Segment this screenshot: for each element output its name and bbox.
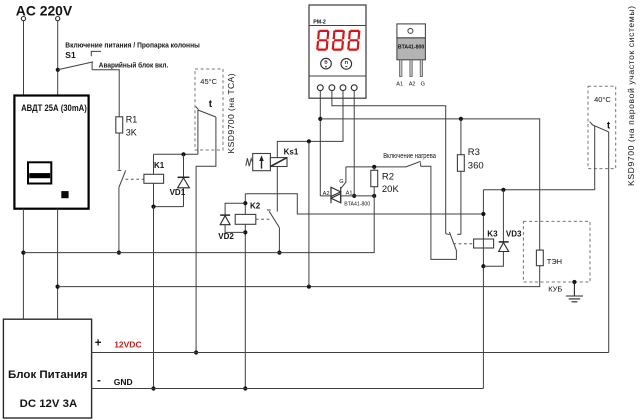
junction S1 pivot bbox=[56, 68, 60, 72]
relay coil K3 bbox=[474, 239, 494, 248]
svg-text:3K: 3K bbox=[126, 128, 137, 138]
svg-text:45°C: 45°C bbox=[200, 77, 217, 86]
svg-text:KSD9700 (на паровой участок си: KSD9700 (на паровой участок системы) bbox=[626, 6, 636, 186]
svg-text:t: t bbox=[209, 99, 213, 110]
contact K2.1 tick bbox=[267, 209, 271, 211]
wire PM2-4 down bbox=[353, 91, 355, 196]
node rail K1/VD1 bottom bbox=[154, 206, 184, 208]
terminal PM2-1 bbox=[317, 85, 323, 91]
triac U1 symbol bbox=[331, 187, 341, 203]
wire R3 bottom to K3 changeover bbox=[460, 171, 462, 234]
wire 45C left lead to K1 rail bbox=[197, 110, 199, 154]
terminal L (AC phase) bbox=[21, 17, 25, 21]
svg-text:АВДТ 25А (30mA): АВДТ 25А (30mA) bbox=[21, 103, 87, 113]
diode VD1 bbox=[183, 154, 185, 177]
node rail K1/VD1 top bbox=[154, 153, 198, 155]
svg-text:K2: K2 bbox=[250, 201, 261, 210]
display 888 bbox=[316, 30, 360, 51]
wire R1 to K1 contact bbox=[118, 133, 120, 170]
breaker АВДТ 25А (30мА) box bbox=[14, 96, 88, 209]
wire rail PM2-1 to R3 and TEH bbox=[320, 119, 539, 250]
junction VD3 top bbox=[501, 188, 505, 192]
junction rail B / PM2-3 branch bbox=[307, 285, 311, 289]
svg-text:K3: K3 bbox=[487, 230, 498, 239]
junction cube ground bbox=[572, 280, 576, 284]
wire breaker-N out to PSU bbox=[57, 209, 59, 320]
wire K2 branch rail bbox=[245, 194, 483, 214]
svg-text:Аварийный блок вкл.: Аварийный блок вкл. bbox=[99, 62, 169, 70]
svg-text:Включение питания / Пропарка к: Включение питания / Пропарка колонны bbox=[65, 43, 200, 50]
svg-text:П: П bbox=[345, 60, 348, 65]
contact K3.1 right tick bbox=[457, 233, 461, 235]
thermal switch 45C blade bbox=[198, 110, 216, 117]
valve Ks1 body bbox=[253, 154, 271, 171]
triac U1 A1 lead bbox=[341, 195, 375, 197]
svg-text:VD1: VD1 bbox=[170, 188, 186, 197]
junction VD2 top bbox=[243, 201, 247, 205]
junction VD2 bottom bbox=[243, 230, 247, 234]
contact K2.1 blade bbox=[269, 211, 279, 227]
triac BTA41-800 package bbox=[397, 24, 426, 38]
svg-text:Блок Питания: Блок Питания bbox=[8, 369, 88, 381]
heater ТЭН dashed box bbox=[523, 221, 590, 282]
svg-text:РМ-2: РМ-2 bbox=[313, 19, 326, 25]
junction PM2-1 / rail bbox=[318, 117, 322, 121]
svg-text:VD3: VD3 bbox=[506, 230, 522, 239]
wire 12VDC rail bbox=[92, 352, 609, 354]
svg-text:DC 12V 3A: DC 12V 3A bbox=[20, 398, 78, 410]
switch S1 alternate-position marker bbox=[91, 51, 101, 56]
relay coil K2 bbox=[235, 214, 256, 224]
breaker indicator square bbox=[61, 191, 68, 198]
contact K3.1 dashed link bbox=[453, 243, 473, 245]
junction VD1 top bbox=[181, 152, 185, 156]
wire AC rail A bbox=[23, 196, 374, 253]
svg-text:R2: R2 bbox=[382, 171, 394, 182]
wire contact to K3 changeover bbox=[421, 166, 457, 259]
svg-text:G: G bbox=[339, 179, 343, 185]
svg-text:S1: S1 bbox=[65, 50, 76, 60]
junction on PM2-3 wire bbox=[307, 139, 311, 143]
junction K2 contact on rail A bbox=[277, 251, 281, 255]
junction on GND rail bbox=[151, 386, 155, 390]
terminal N (AC neutral) bbox=[56, 17, 60, 21]
switch S1 blade bbox=[58, 62, 93, 70]
wire K3 vertical bbox=[482, 190, 484, 389]
thermal switch 40C blade bbox=[592, 125, 609, 132]
thermal switch KSD9700 40C dashed box bbox=[588, 86, 616, 168]
wire Ks1 to K2 contact bbox=[276, 167, 278, 212]
junction R2 top bbox=[372, 165, 376, 169]
contact K1.1 blade bbox=[119, 170, 126, 187]
svg-text:t: t bbox=[607, 120, 611, 131]
junction K1 contact on rail A bbox=[117, 251, 121, 255]
terminal PM2-2 bbox=[329, 85, 335, 91]
relay coil K2 top lead bbox=[244, 194, 246, 215]
diode VD3 bbox=[502, 190, 504, 242]
contact K3.1 left tick bbox=[446, 233, 450, 236]
svg-text:G: G bbox=[421, 82, 425, 88]
switch S1 fixed contact stub bbox=[91, 62, 93, 70]
contact K2.1 dashed link bbox=[256, 218, 271, 220]
svg-text:A1: A1 bbox=[346, 191, 353, 197]
solenoid Ks1 coil bbox=[270, 158, 287, 167]
junction AC rail B start bbox=[56, 285, 60, 289]
wire AC-L down to breaker bbox=[23, 21, 25, 96]
diode VD2 bbox=[225, 203, 245, 215]
svg-text:R1: R1 bbox=[126, 115, 138, 125]
relay coil K1 bbox=[126, 178, 144, 180]
svg-text:A1: A1 bbox=[396, 82, 403, 88]
wire K2 bottom to GND rail bbox=[244, 224, 246, 388]
wire K2 contact to rail A bbox=[278, 228, 280, 253]
wire 45C right lead to 12VDC rail bbox=[196, 117, 216, 353]
resistor R2 bbox=[373, 167, 375, 170]
svg-text:360: 360 bbox=[468, 161, 484, 172]
svg-text:GND: GND bbox=[114, 377, 133, 387]
triac U1 A2 lead bbox=[320, 195, 331, 197]
junction R2 bottom bbox=[372, 194, 376, 198]
power supply Блок Питания box bbox=[3, 319, 91, 418]
wire PM2-2 to K3 contact bbox=[332, 91, 446, 234]
ground symbol bbox=[566, 282, 583, 302]
wire gate rail to contact bbox=[346, 166, 406, 168]
svg-text:KSD9700 (на ТСА): KSD9700 (на ТСА) bbox=[226, 73, 236, 153]
svg-text:A2: A2 bbox=[323, 191, 330, 197]
junction K3 top rail bbox=[481, 212, 485, 216]
wire K3 top rail to 40C switch bbox=[483, 189, 594, 191]
resistor R1 bbox=[116, 117, 123, 133]
contact K3.1 blade bbox=[449, 232, 456, 251]
junction PM2-4 / triac A1 rail bbox=[352, 194, 356, 198]
heater ТЭН element bbox=[536, 250, 543, 266]
wire breaker-L out to PSU bbox=[22, 209, 24, 320]
thermal switch 40C tick bbox=[590, 122, 593, 125]
junction K1 bottom bbox=[151, 205, 155, 209]
junction AC rail A start bbox=[21, 251, 25, 255]
wire 40C right lead to 12VDC rail bbox=[608, 132, 610, 353]
wire AC-N down to breaker bbox=[57, 21, 59, 96]
thermal switch 45C tick bbox=[196, 107, 199, 110]
contact нагрев fixed stub bbox=[420, 162, 422, 166]
junction K2 on GND rail bbox=[243, 386, 247, 390]
svg-text:Включение нагрева: Включение нагрева bbox=[383, 153, 436, 160]
svg-text:R3: R3 bbox=[468, 147, 480, 158]
thermal switch KSD9700 45C dashed box bbox=[195, 69, 223, 150]
wire K1/VD1 bottom to GND rail bbox=[153, 207, 155, 389]
triac U1 gate lead bbox=[341, 167, 346, 189]
svg-text:40°C: 40°C bbox=[594, 95, 611, 104]
breaker rocker switch graphic bbox=[28, 162, 51, 183]
junction K3/VD3 bottom bbox=[481, 264, 485, 268]
wire K1 coil bottom bbox=[153, 183, 155, 206]
svg-text:K1: K1 bbox=[154, 161, 165, 170]
svg-text:ТЭН: ТЭН bbox=[547, 257, 562, 266]
wire GND rail bbox=[92, 388, 484, 390]
wire PM2-3 branch down bbox=[308, 141, 310, 286]
wire K1 coil top bbox=[153, 154, 155, 174]
button П bbox=[341, 59, 352, 70]
wire S1 to R1 bbox=[92, 70, 119, 117]
svg-text:BTA41-800: BTA41-800 bbox=[398, 45, 425, 51]
svg-text:20K: 20K bbox=[382, 184, 400, 195]
svg-text:+: + bbox=[95, 337, 102, 349]
wire AC rail B bbox=[58, 266, 540, 287]
svg-text:КУБ: КУБ bbox=[548, 285, 562, 294]
wire 40C left lead bbox=[594, 126, 596, 190]
button В bbox=[321, 58, 332, 69]
wire PM2-1 down to triac A2 bbox=[319, 91, 321, 196]
svg-text:A2: A2 bbox=[409, 82, 416, 88]
svg-text:VD2: VD2 bbox=[218, 232, 234, 241]
terminal PM2-4 bbox=[351, 85, 357, 91]
svg-text:BTA41-800: BTA41-800 bbox=[344, 202, 370, 208]
contact нагрев blade bbox=[406, 161, 421, 167]
terminal PM2-3 bbox=[340, 85, 346, 91]
wire PM2-3 to valve Ks1 bbox=[277, 91, 343, 158]
contact K1.1 tick bbox=[118, 169, 122, 171]
junction R3 top bbox=[459, 117, 463, 121]
svg-text:12VDC: 12VDC bbox=[114, 339, 141, 349]
resistor R3 bbox=[457, 155, 464, 172]
valve Ks1 spring bbox=[246, 158, 253, 166]
svg-text:Ks1: Ks1 bbox=[284, 148, 299, 157]
junction 45C on 12VDC rail bbox=[194, 350, 198, 354]
controller PM-2 body bbox=[309, 5, 366, 98]
svg-text:-: - bbox=[97, 375, 101, 387]
wire K1 contact to AC rail A bbox=[118, 187, 120, 252]
